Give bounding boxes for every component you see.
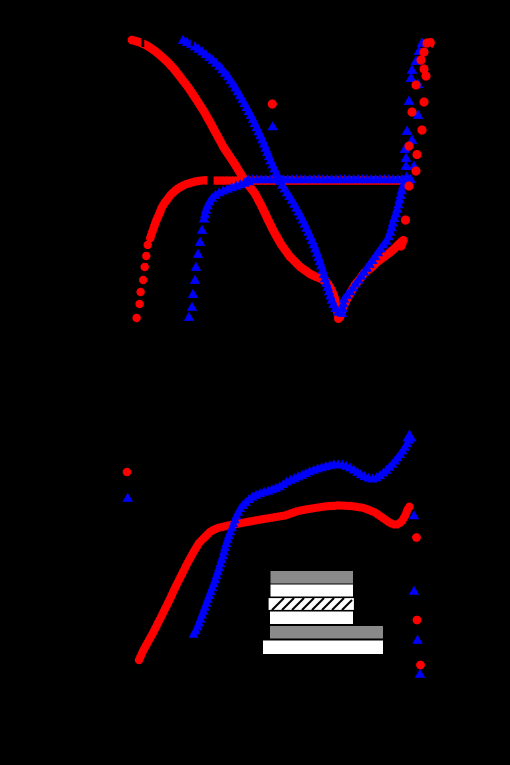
black gap in red plateau (207, 173, 213, 188)
inset device stack: lower electrode (gray, wide) (270, 626, 384, 640)
black tick notch over red band (141, 36, 144, 47)
inset device stack: bottom substrate (white, widest) (263, 640, 384, 655)
bottom chart: blue curve (dense triangles) (189, 435, 415, 638)
bottom chart right column: red circle 1 (412, 533, 421, 542)
top chart legend: red circle marker (268, 99, 277, 108)
bottom chart: big blue triangle at curve end (403, 430, 417, 442)
inset device stack: active layer (hatched) (268, 598, 355, 611)
top chart: red left rising branch (132, 176, 209, 322)
inset device stack: buffer layer (white) (270, 584, 354, 597)
bottom chart: red curve (dense circles) (135, 501, 414, 664)
top chart: small red hook at top right (424, 40, 433, 47)
top chart legend: blue triangle marker (267, 121, 278, 130)
top chart: red descending J-V branch (dense circles) (128, 36, 343, 323)
black tick notch over blue band (191, 36, 194, 46)
top chart: blue scattered triangles at far right (400, 38, 428, 170)
top chart: blue left rising branch (184, 176, 254, 321)
top chart: blue descending J-V branch (dense triangles) (178, 35, 344, 316)
bottom chart right column: blue triangle 1 (409, 510, 419, 519)
top chart: blue photocurrent plateau (dense triangles) (243, 174, 416, 183)
top chart: blue right rising branch (dense triangles) (337, 172, 412, 317)
bottom chart right column: red circle 3 (416, 661, 425, 670)
bottom chart legend: blue triangle marker (123, 493, 134, 502)
inset device stack: top electrode (gray) (270, 571, 354, 585)
inset device stack: transport layer (white) (270, 611, 354, 625)
bottom chart right column: blue triangle 3 (412, 635, 422, 644)
bottom chart right column: red circle 2 (413, 616, 422, 625)
top chart: red scattered circles at far right (401, 38, 432, 224)
bottom chart right column: blue triangle 2 (409, 586, 419, 595)
bottom chart right column: blue triangle 4 (415, 669, 425, 678)
bottom chart legend: red circle marker (123, 468, 132, 477)
top chart: red photocurrent plateau (dense circles) (203, 176, 413, 185)
top chart: red right rising branch (dense circles) (336, 236, 408, 321)
